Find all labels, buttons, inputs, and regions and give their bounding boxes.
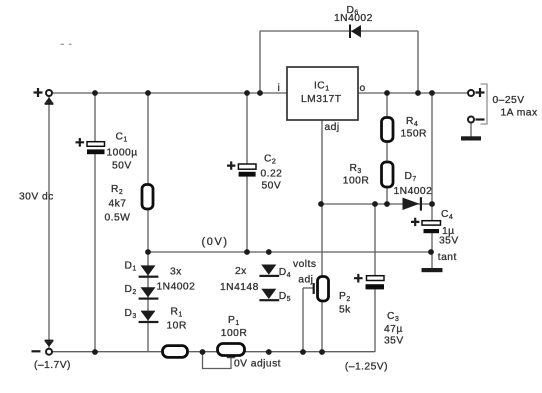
svg-text:(0V): (0V) [202,236,229,248]
svg-text:150R: 150R [401,128,427,139]
svg-text:1N4002: 1N4002 [394,186,433,197]
svg-text:47µ: 47µ [384,324,403,335]
svg-text:10R: 10R [167,321,187,332]
svg-text:2x: 2x [235,266,247,277]
svg-text:(–1.7V): (–1.7V) [34,360,71,371]
svg-text:35V: 35V [384,336,404,347]
svg-text:50V: 50V [262,181,282,192]
svg-text:30V dc: 30V dc [19,192,54,203]
svg-text:adj: adj [325,122,340,133]
svg-text:tant: tant [438,252,457,263]
svg-text:0–25V: 0–25V [493,95,525,106]
svg-text:LM317T: LM317T [301,94,342,105]
svg-text:1N4002: 1N4002 [157,281,196,292]
svg-text:0V adjust: 0V adjust [234,359,281,370]
svg-text:4k7: 4k7 [109,198,127,209]
svg-text:0.22: 0.22 [261,169,283,180]
svg-text:3x: 3x [170,266,182,277]
svg-text:i: i [278,83,281,94]
svg-text:1A max: 1A max [501,107,538,118]
svg-text:0.5W: 0.5W [105,213,131,224]
svg-text:100R: 100R [343,176,369,187]
svg-text:(–1.25V): (–1.25V) [345,361,388,372]
svg-text:1N4148: 1N4148 [220,282,259,293]
svg-text:1N4002: 1N4002 [334,13,373,24]
svg-text:100R: 100R [221,328,247,339]
svg-text:50V: 50V [112,161,132,172]
svg-text:35V: 35V [439,235,459,246]
svg-text:o: o [360,83,366,94]
svg-text:5k: 5k [339,305,351,316]
svg-text:volts: volts [293,259,316,270]
svg-text:adj: adj [298,275,313,286]
svg-text:1000µ: 1000µ [107,147,138,158]
